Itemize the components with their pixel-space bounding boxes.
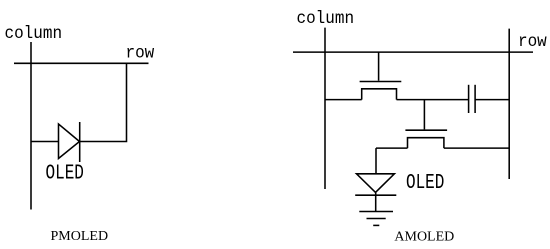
ground [359, 212, 393, 226]
svg-text:PMOLED: PMOLED [51, 229, 109, 244]
wire column bus (PMOLED) [30, 42, 32, 210]
diode OLED (PMOLED pixel) [59, 122, 80, 162]
wire capacitor to row bus [475, 99, 509, 101]
svg-text:OLED: OLED [46, 162, 84, 186]
transistor T2 (drive TFT) [405, 130, 447, 148]
wire row bus (AMOLED) [508, 29, 510, 179]
diode OLED (AMOLED pixel) [355, 148, 396, 211]
svg-text:row: row [126, 44, 156, 64]
wire column to T1 source [325, 99, 362, 101]
transistor T1 (switching TFT) [360, 52, 402, 100]
wire select line (top horizontal) [293, 51, 533, 53]
wire column bus (AMOLED) [324, 28, 326, 189]
svg-text:column: column [297, 9, 355, 29]
wire diode cathode to row [80, 63, 127, 141]
svg-text:column: column [5, 24, 63, 44]
wire diode anode [31, 141, 59, 143]
svg-text:AMOLED: AMOLED [394, 230, 454, 245]
wire T2 drain to row bus [444, 147, 509, 149]
svg-text:row: row [518, 32, 548, 52]
wire T1 drain to T2 gate [423, 100, 425, 130]
capacitor Cs [469, 85, 476, 113]
wire row bus (PMOLED) [14, 62, 149, 64]
svg-text:OLED: OLED [406, 171, 444, 195]
wire T1 drain to capacitor [397, 99, 469, 101]
wire T2 source to OLED anode [376, 147, 408, 149]
